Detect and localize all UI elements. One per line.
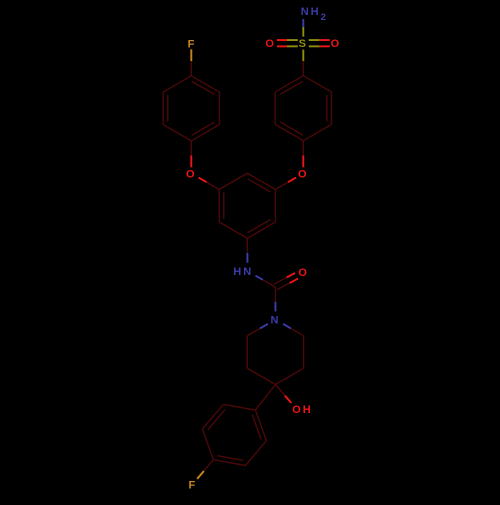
svg-text:O: O <box>298 267 309 279</box>
svg-text:F: F <box>189 480 198 492</box>
ring1 edge UR-T <box>303 76 331 92</box>
ring1 edge B-LR <box>303 124 331 140</box>
ring1 edge T-UL double <box>275 76 303 92</box>
ring2 edge T-UR double <box>191 76 219 92</box>
bond O-central ring right <box>288 178 296 183</box>
piperidine edge UL-N <box>247 328 260 335</box>
bond C-N piperidine <box>274 287 276 302</box>
ring4 edge A-V4 double <box>255 410 266 441</box>
svg-text:OH: OH <box>292 404 313 416</box>
piperidine edge N-UR <box>283 324 291 329</box>
svg-text:N: N <box>270 314 280 326</box>
central ring edge LR-B double <box>247 222 275 238</box>
bond ring4-F <box>204 460 214 471</box>
bond F-ring2 <box>190 49 192 61</box>
ring2 edge LR-B double <box>191 125 219 141</box>
svg-text:O: O <box>186 168 197 180</box>
svg-text:HN: HN <box>233 266 253 278</box>
ring2 edge B-LL <box>163 125 191 141</box>
bond ring2-O ether left <box>190 141 192 156</box>
bond C4-ring4 <box>255 385 275 411</box>
ring2 edge LL-UL double <box>162 92 164 125</box>
central ring edge UR-LR <box>274 190 276 223</box>
svg-text:O: O <box>265 38 276 50</box>
ring4 edge V3-A <box>223 404 255 410</box>
svg-text:S: S <box>299 38 308 50</box>
ring2 edge UR-LR <box>218 92 220 125</box>
svg-text:O: O <box>331 38 342 50</box>
ring1 edge UL-LL <box>274 92 276 125</box>
piperidine edge UR-LR <box>303 336 305 369</box>
bond central ring-NH <box>246 238 248 253</box>
central ring edge B-LL <box>219 222 247 238</box>
bond C4-OH <box>275 385 284 396</box>
double bond S=O left <box>287 39 298 41</box>
bond N-S (sulfonamide) <box>302 19 304 27</box>
ring1 edge LR-UR double <box>330 92 332 125</box>
bond ring1-O ether right <box>302 141 304 156</box>
piperidine edge LR-C4 <box>275 368 303 384</box>
ring2 edge UL-T <box>163 76 191 92</box>
central ring edge UL-T <box>219 173 247 189</box>
double bond C=O urea <box>277 283 290 290</box>
svg-text:F: F <box>188 38 197 50</box>
ring4 edge P-V1 <box>202 429 213 460</box>
double bond S=O right <box>309 45 320 47</box>
central ring edge T-UR double <box>247 173 275 189</box>
svg-text:O: O <box>298 168 309 180</box>
ring1 edge LL-B double <box>275 124 303 140</box>
ring4 edge V1-V3 double <box>202 404 223 429</box>
piperidine edge C4-LL <box>247 368 275 384</box>
bond O-central ring left <box>199 178 207 183</box>
ring4 edge V4-V2 <box>245 441 266 466</box>
bond S-ring1 <box>302 50 304 61</box>
bond NH-C carbonyl <box>256 276 263 280</box>
ring4 edge V2-P double <box>213 460 245 466</box>
central ring edge LL-UL double <box>218 190 220 223</box>
piperidine edge LL-UL <box>246 336 248 369</box>
